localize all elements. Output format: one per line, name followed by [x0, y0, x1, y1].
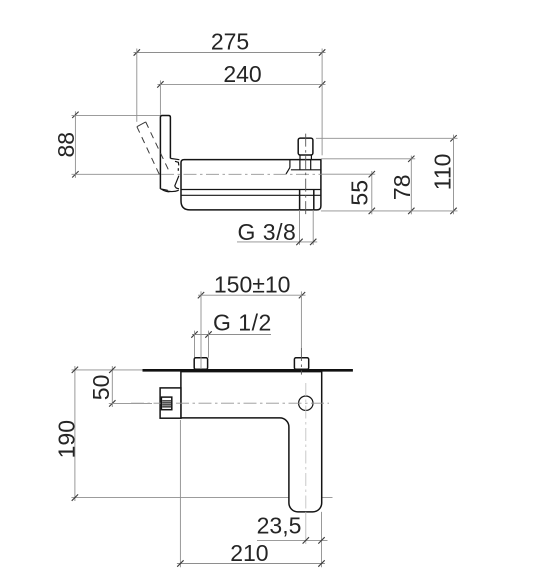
spout centerline vertical (plan): [305, 383, 307, 512]
dim line 50: [88, 366, 114, 407]
tick 150 right: [299, 292, 305, 298]
dim line 110: [430, 135, 456, 215]
G 3/8 extension lines: [299, 210, 301, 245]
handle knurl box (plan): [161, 397, 171, 410]
tick 78 bottom: [408, 208, 414, 214]
mixer body L-shape (plan view): [181, 372, 322, 512]
centerline horizontal (plan view): [131, 402, 329, 404]
spout centerline extension below: [305, 512, 307, 544]
tick 190 bottom: [72, 494, 78, 500]
right G1/2 connector (plan): [294, 358, 308, 370]
dim line 210: [177, 540, 325, 566]
dim line 88: [53, 111, 79, 178]
G 1/2 dim line: [192, 310, 272, 336]
spout hole circle: [299, 396, 313, 410]
extension line 150 right upper: [300, 291, 302, 348]
extension line 275 left (to lever tip): [136, 49, 138, 122]
wall plate lead-in line: [72, 369, 143, 371]
tick 150 left: [198, 292, 204, 298]
tick 275 right: [319, 49, 325, 55]
handle (plan view): [160, 388, 181, 418]
valve seat block bottom line: [291, 169, 321, 171]
G 3/8 dim line: [237, 219, 317, 245]
tick 190 top: [72, 367, 78, 373]
mixer body (side view): [181, 160, 321, 210]
extension line 88 bottom / centerline lead-in: [72, 173, 162, 175]
connector neck inner lines: [299, 160, 301, 170]
handle base wedge: [175, 161, 179, 165]
tick 210 right: [318, 560, 324, 566]
wall plate: [143, 369, 353, 372]
svg-text:55: 55: [347, 180, 373, 206]
handle step to body: [170, 158, 179, 159]
body bottom edge line: [181, 189, 321, 191]
handle lever (side view): [160, 116, 170, 189]
extension line 240 left (to handle top): [159, 80, 161, 114]
svg-text:50: 50: [88, 375, 114, 401]
extension 190 bottom (through spout): [71, 497, 332, 499]
tick 50 top: [109, 367, 115, 373]
tick 88 top: [72, 112, 78, 118]
svg-text:150±10: 150±10: [214, 272, 291, 298]
dim line 190: [53, 366, 79, 501]
tick 210 left: [177, 560, 183, 566]
extension line right (wall face): [321, 49, 323, 156]
lever handle alternate position (dashed): [137, 122, 146, 127]
tick 23,5 right: [318, 537, 324, 543]
tick 55 bottom: [369, 208, 375, 214]
extension spout right edge (23,5 / 210): [321, 512, 323, 567]
dim line 55: [347, 171, 373, 214]
knurl lines: [162, 401, 171, 407]
left G1/2 connector (plan): [194, 358, 207, 370]
centerline horizontal (top view): [161, 173, 321, 175]
tick 275 left: [134, 49, 140, 55]
handle bottom edge: [160, 189, 167, 190]
tick 78 top: [408, 156, 414, 162]
extension line bottom shared (55/78/110): [321, 210, 458, 212]
svg-text:G 1/2: G 1/2: [213, 310, 272, 336]
tick 23,5 left: [303, 537, 309, 543]
tick 240 left: [157, 81, 163, 87]
tick 110 bottom: [450, 208, 456, 214]
valve seat block left edge: [289, 160, 291, 168]
svg-text:210: 210: [230, 540, 268, 566]
tick 240 right: [319, 81, 325, 87]
valve seat chamfer: [286, 168, 290, 175]
lower G3/8 connector: [299, 190, 301, 210]
svg-text:190: 190: [53, 420, 79, 458]
tick 88 bottom: [72, 171, 78, 177]
svg-text:78: 78: [389, 175, 415, 201]
extension line 78 top: [321, 158, 415, 160]
centerline extension to 55 dim: [321, 173, 375, 175]
tick 50 bottom: [109, 400, 115, 406]
svg-text:23,5: 23,5: [257, 513, 302, 539]
tick G1/2 left: [191, 331, 197, 337]
extension line 110 top: [316, 137, 458, 139]
centerline vertical (connector axis): [305, 134, 307, 216]
top connector neck: [300, 155, 311, 160]
dim line 78: [389, 156, 415, 215]
dim line 23,5: [257, 513, 328, 541]
extension line 150 right lower (dash-dot): [300, 348, 302, 375]
tick G3/8 left: [296, 239, 302, 245]
dim line 150±10: [198, 272, 306, 298]
G 1/2 extension lines: [194, 331, 196, 358]
extension 50 bottom: [109, 402, 152, 404]
extension line 150 left (through left connector): [200, 291, 202, 369]
svg-text:88: 88: [53, 132, 79, 158]
handle dome arcs: [175, 176, 179, 189]
top connector nut: [298, 138, 313, 155]
tick 55 top: [369, 171, 375, 177]
cartridge edge tick: [177, 168, 179, 171]
dim line 275: [134, 29, 326, 55]
tick G3/8 right: [310, 239, 316, 245]
extension 210 left: [179, 420, 181, 567]
spout plate top line: [181, 194, 321, 196]
tick 110 top: [450, 135, 456, 141]
dim line 240: [157, 61, 325, 87]
tick G1/2 right: [205, 331, 211, 337]
svg-text:G 3/8: G 3/8: [238, 219, 297, 245]
svg-text:110: 110: [430, 154, 456, 191]
extension line 88 top: [72, 115, 161, 117]
svg-text:240: 240: [223, 61, 261, 87]
svg-text:275: 275: [211, 29, 249, 55]
